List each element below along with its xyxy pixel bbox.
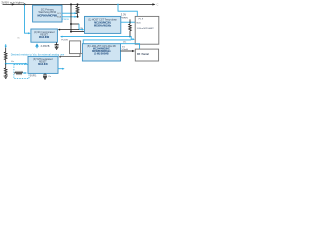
wire supply drop to U4: [70, 4, 84, 32]
svg-text:PC37B: PC37B: [61, 40, 68, 42]
wire SDA from U1: [62, 16, 77, 18]
node VHIGH label: [1, 1, 24, 5]
capacitor C2 under U2: [55, 42, 59, 49]
svg-text:MC900s/W198s: MC900s/W198s: [94, 24, 112, 27]
svg-text:RESET: RESET: [40, 34, 48, 36]
resistor R5 thermistor: [14, 72, 27, 75]
svg-text:VDD: VDD: [136, 22, 141, 24]
svg-text:SDA: SDA: [57, 16, 62, 19]
svg-text:PROB: PROB: [63, 19, 70, 21]
wire divider input arrow: [5, 44, 7, 52]
resistor R2 bus pull-up: [129, 19, 132, 36]
wire I2C bus SDA to MCU: [83, 40, 131, 44]
svg-text:SVPS:: SVPS:: [30, 76, 37, 78]
svg-text:1-Wire/SPI/UART: 1-Wire/SPI/UART: [137, 27, 155, 30]
wire divider tap to U3: [5, 63, 28, 65]
wire U3 reset out: [58, 68, 65, 70]
svg-text:Vcc: Vcc: [17, 38, 20, 40]
svg-text:PWRIN: PWRIN: [120, 18, 128, 20]
svg-text:RF / Serial: RF / Serial: [137, 53, 149, 56]
node rail junction B: [70, 3, 72, 5]
node rail junction A: [24, 3, 26, 5]
wire top power rail: [3, 3, 156, 5]
wire EN into U4: [71, 24, 84, 31]
wire SCL from U1: [62, 12, 77, 14]
svg-text:MAX-80N: MAX-80N: [39, 36, 49, 39]
wire U5 to RF top feed: [121, 44, 140, 49]
box optional module: [70, 41, 83, 54]
node 3.3/5V label with arrow: [35, 43, 50, 48]
svg-text:(4) I2C Incorporated: (4) I2C Incorporated: [34, 31, 55, 34]
svg-text:ON: ON: [80, 28, 84, 30]
svg-text:MCP98A/MCP9B: MCP98A/MCP9B: [38, 15, 58, 18]
box U4 host temp sensor: [85, 16, 121, 33]
svg-text:C: C: [157, 3, 159, 7]
box U1 I2C primary sensor: [33, 5, 62, 22]
box U2 reset supervisor: [31, 29, 58, 42]
wire 3.3V feed to MCU: [118, 4, 137, 19]
node Vm label: [11, 61, 14, 63]
node SDA label: [63, 19, 70, 21]
node SVPS label: [30, 76, 37, 78]
svg-text:3.3/5VB: 3.3/5VB: [41, 45, 50, 48]
text analog note: [11, 53, 65, 57]
svg-text:I2C: I2C: [123, 41, 127, 43]
resistor R4 divider bottom: [4, 64, 7, 76]
node Vcc label: [17, 38, 20, 40]
node rail junction D: [117, 4, 119, 6]
box RF serial: [135, 49, 158, 61]
svg-text:P1.9: P1.9: [139, 19, 144, 21]
svg-text:MAX-8/N: MAX-8/N: [38, 63, 48, 66]
box U5 bridge: [82, 44, 120, 61]
box dashed thermistor option: [14, 65, 29, 79]
wire long I2C bus SCL to MCU: [60, 36, 135, 42]
box MCU: [135, 16, 159, 44]
wire reset into U2: [58, 29, 79, 31]
svg-text:(1-W) BHB4B: (1-W) BHB4B: [94, 52, 109, 55]
node rail junction C: [77, 3, 79, 5]
wire U5 serial to RF: [121, 46, 135, 52]
capacitor C1 under U3: [43, 73, 52, 79]
wire VDD link U4 to MCU: [121, 21, 135, 23]
ground divider: [4, 76, 8, 78]
node rail end label: [157, 3, 159, 7]
resistor R1 pull-up: [76, 4, 79, 17]
box U3 reset supervisor 2: [28, 56, 58, 73]
svg-text:1/0mA: 1/0mA: [121, 48, 128, 51]
wire supply drop to U2: [25, 4, 31, 34]
svg-text:3.3V: 3.3V: [121, 13, 127, 17]
resistor R3 divider top: [4, 52, 7, 64]
wire sense into U3: [58, 54, 80, 58]
